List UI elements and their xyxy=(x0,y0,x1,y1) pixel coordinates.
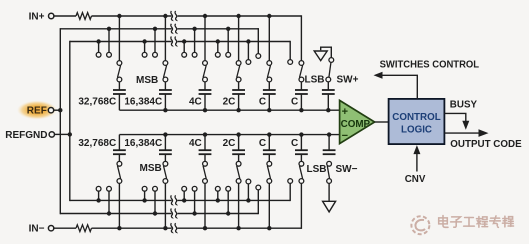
wire top array common rail to COMP+ xyxy=(119,109,339,111)
svg-text:LOGIC: LOGIC xyxy=(401,124,432,135)
capacitor 2C top xyxy=(232,89,245,91)
wire V1 vertical (REF) xyxy=(59,28,61,214)
svg-text:LSB: LSB xyxy=(305,75,325,86)
node IN- terminal xyxy=(48,226,53,231)
switch S6 top spare contact xyxy=(288,60,293,65)
svg-text:REFGND: REFGND xyxy=(5,130,47,141)
node REFGND terminal xyxy=(49,132,54,137)
svg-text:32,768C: 32,768C xyxy=(78,138,116,149)
wire rail T2 (REF bus top) xyxy=(60,28,171,30)
wire CNV xyxy=(416,150,418,172)
wire OUTPUT CODE xyxy=(444,132,479,134)
capacitor 32,768C top xyxy=(113,89,126,91)
capacitor C (SW- dummy) bottom xyxy=(323,149,336,151)
wire REFGND to V2 xyxy=(55,133,70,135)
capacitor 16,384C top xyxy=(159,89,172,91)
svg-text:IN−: IN− xyxy=(29,224,45,235)
svg-text:CNV: CNV xyxy=(405,174,426,185)
junction top rail at 16,384C xyxy=(163,108,167,112)
wire BUSY xyxy=(444,113,465,121)
svg-text:CONTROL: CONTROL xyxy=(392,112,440,123)
svg-text:4C: 4C xyxy=(189,97,202,108)
capacitor C bottom xyxy=(263,149,276,151)
capacitor 32,768C bottom xyxy=(113,149,126,151)
svg-text:MSB: MSB xyxy=(140,163,162,174)
switch S2 bottom spare contacts to REF/REFGND xyxy=(142,198,146,202)
switch S3 bottom (pole+contact+blade) xyxy=(203,226,207,230)
wire SWITCHES CONTROL xyxy=(382,75,417,99)
watermark text xyxy=(443,216,448,228)
switch SW- (pole+blade+contact) xyxy=(327,161,332,166)
junction REFGND-V2 xyxy=(68,132,72,136)
junction top rail at C xyxy=(299,108,303,112)
svg-text:BUSY: BUSY xyxy=(450,99,478,110)
ground triangle (top, analog gnd) xyxy=(314,51,327,61)
break squiggle on rail T1 xyxy=(171,11,173,21)
ground triangle (bottom, analog gnd) xyxy=(323,201,336,212)
switch S4 bottom (pole+contact+blade) xyxy=(236,226,240,230)
junction top rail at 2C xyxy=(236,108,240,112)
wire IN+ to resistor xyxy=(54,15,76,17)
break squiggle on rail B3 xyxy=(171,195,173,205)
break squiggle on rail T3 xyxy=(171,37,173,47)
switch S2 bottom (pole+contact+blade) xyxy=(163,226,167,230)
svg-text:16,384C: 16,384C xyxy=(124,138,162,149)
wire rail B1 (IN- bus) xyxy=(92,227,172,229)
switch S4 top spare contacts to REF/REFGND xyxy=(216,39,220,43)
junction top rail at C xyxy=(267,108,271,112)
capacitor C bottom xyxy=(295,149,308,151)
svg-text:IN+: IN+ xyxy=(29,12,45,23)
junction bottom rail at 2C xyxy=(236,132,240,136)
op-amp COMP (comparator) xyxy=(340,100,375,143)
wire B2 end up to spare contact xyxy=(257,190,259,214)
break squiggle on rail B2 xyxy=(171,209,173,219)
watermark logo circle xyxy=(411,216,429,234)
break squiggle on rail B1 xyxy=(171,223,173,233)
node REF terminal xyxy=(48,108,53,113)
switch S5 top spare contacts xyxy=(246,39,250,43)
arrow BUSY xyxy=(462,121,469,130)
wire V2 vertical (REFGND) xyxy=(69,41,71,201)
wire rail B3 (REFGND bus bottom) xyxy=(70,199,172,201)
capacitor 16,384C bottom xyxy=(159,149,172,151)
wire rail T1 (IN+ bus) xyxy=(92,15,172,17)
wire rail T3 (REFGND bus top) xyxy=(70,41,172,43)
svg-text:REF: REF xyxy=(27,106,47,117)
wire B3 end up to spare contact xyxy=(289,183,291,201)
break squiggle on rail T2 xyxy=(171,24,173,34)
svg-text:MSB: MSB xyxy=(136,75,158,86)
svg-text:SW+: SW+ xyxy=(337,75,359,86)
svg-text:4C: 4C xyxy=(189,138,202,149)
switch S5 top (pole+contact+blade) xyxy=(267,14,271,18)
junction bottom rail at C xyxy=(299,132,303,136)
wire B1 right corner up to LSB contact xyxy=(300,183,302,229)
svg-text:SW−: SW− xyxy=(336,164,358,175)
svg-text:SWITCHES CONTROL: SWITCHES CONTROL xyxy=(380,60,480,71)
switch S3 top (pole+contact+blade) xyxy=(203,14,207,18)
svg-text:2C: 2C xyxy=(223,138,236,149)
svg-text:C: C xyxy=(291,138,298,149)
switch S2 top (pole+contact+blade) xyxy=(163,14,167,18)
capacitor C top xyxy=(263,89,276,91)
capacitor C top xyxy=(295,89,308,91)
svg-text:16,384C: 16,384C xyxy=(124,97,162,108)
switch S5 bottom (pole+contact+blade) xyxy=(267,226,271,230)
switch S5 bottom spare contacts xyxy=(246,198,250,202)
svg-text:C: C xyxy=(259,138,266,149)
wire IN- to resistor xyxy=(54,227,76,229)
switch S4 bottom spare contacts to REF/REFGND xyxy=(216,198,220,202)
junction REF-V1 xyxy=(58,108,62,112)
capacitor 4C top xyxy=(199,89,212,91)
resistor input R (IN-) xyxy=(76,225,92,232)
wire REF to V1 xyxy=(54,109,61,111)
junction top rail at SW+ xyxy=(326,108,330,112)
svg-text:32,768C: 32,768C xyxy=(78,97,116,108)
junction bottom rail at C xyxy=(267,132,271,136)
switch S6 top (pole+contact+blade) xyxy=(299,61,304,66)
switch S4 top (pole+contact+blade) xyxy=(236,14,240,18)
wire T2 end down to spare contact xyxy=(257,28,259,53)
capacitor C (SW+ dummy) top xyxy=(322,89,335,91)
junction bottom rail at SW- xyxy=(327,132,331,136)
arrow CNV xyxy=(413,145,420,154)
arrow OUTPUT CODE xyxy=(479,129,489,137)
svg-text:C: C xyxy=(259,97,266,108)
wire bottom array common rail to COMP- xyxy=(119,134,339,136)
switch S6 bottom (pole+contact+blade) xyxy=(299,179,304,184)
junction bottom rail at 4C xyxy=(203,132,207,136)
capacitor 2C bottom xyxy=(232,149,245,151)
switch S1 top spare contacts to REF/REFGND xyxy=(96,39,100,43)
switch S3 top spare contacts to REF/REFGND xyxy=(182,39,186,43)
block U1 CONTROL LOGIC xyxy=(389,99,445,144)
svg-text:C: C xyxy=(291,97,298,108)
wire T1 right corner down to LSB contact xyxy=(300,15,302,60)
arrow SWITCHES CONTROL xyxy=(374,72,383,79)
svg-text:2C: 2C xyxy=(223,97,236,108)
switch S1 top (pole+contact+blade) xyxy=(117,14,121,18)
switch S1 bottom (pole+contact+blade) xyxy=(117,226,121,230)
svg-text:−: − xyxy=(342,130,348,142)
switch S6 bottom spare contact xyxy=(288,179,293,184)
wire T3 end down to spare contact xyxy=(289,41,291,60)
svg-text:COMP: COMP xyxy=(341,119,371,130)
capacitor 4C bottom xyxy=(199,149,212,151)
svg-text:+: + xyxy=(342,106,348,118)
node IN+ terminal xyxy=(49,13,54,18)
resistor input R (IN+) xyxy=(76,13,92,20)
svg-text:LSB: LSB xyxy=(307,164,327,175)
switch S2 top spare contacts to REF/REFGND xyxy=(142,39,146,43)
wire rail B2 (REF bus bottom) xyxy=(60,213,171,215)
switch S1 bottom spare contacts to REF/REFGND xyxy=(96,198,100,202)
switch S3 bottom spare contacts to REF/REFGND xyxy=(182,198,186,202)
junction bottom rail at 16,384C xyxy=(163,132,167,136)
wire COMP output xyxy=(375,121,389,123)
junction top rail at 4C xyxy=(203,108,207,112)
svg-text:OUTPUT CODE: OUTPUT CODE xyxy=(450,139,522,150)
switch SW+ (contact+blade+pole) xyxy=(329,58,334,63)
wire gnd to SW+ contact xyxy=(321,47,332,57)
